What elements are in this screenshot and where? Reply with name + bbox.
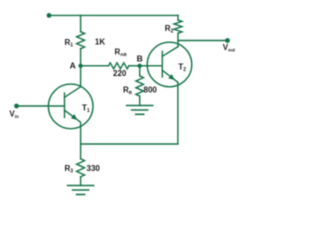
svg-text:T1: T1 [82, 104, 90, 115]
svg-text:Vout: Vout [223, 43, 236, 53]
svg-text:R1: R1 [65, 38, 74, 49]
svg-text:R3: R3 [65, 164, 74, 175]
svg-text:R2: R2 [165, 24, 174, 35]
svg-text:T2: T2 [178, 63, 186, 74]
svg-text:1K: 1K [95, 38, 105, 47]
svg-text:220: 220 [113, 69, 127, 78]
svg-text:800: 800 [144, 85, 158, 94]
svg-text:330: 330 [87, 164, 101, 173]
svg-text:RAB: RAB [115, 48, 128, 58]
svg-text:B: B [137, 53, 143, 63]
svg-text:RB: RB [123, 85, 133, 95]
svg-text:A: A [70, 61, 76, 71]
svg-text:Vin: Vin [9, 110, 19, 120]
